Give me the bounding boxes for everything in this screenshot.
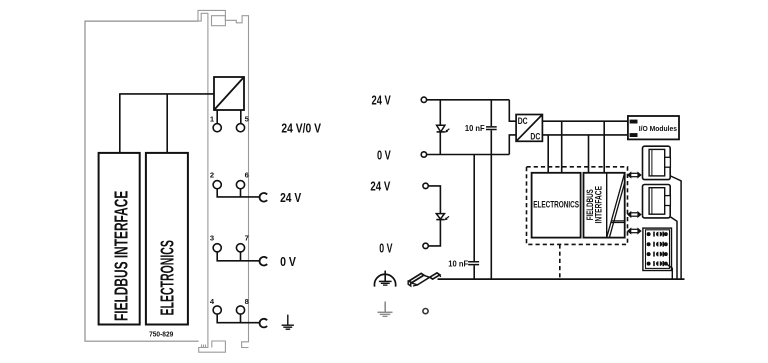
ground rail [438, 278, 685, 280]
clamp row4 [260, 319, 268, 328]
fieldbus interface box [99, 153, 140, 325]
24V rail [427, 99, 510, 101]
terminal 7 [236, 244, 244, 252]
svg-text:ELECTRONICS: ELECTRONICS [157, 240, 178, 315]
svg-text:24 V: 24 V [280, 190, 301, 205]
svg-text:6: 6 [245, 171, 249, 180]
wire bus top [120, 93, 214, 153]
RJ45 socket 2 [643, 185, 671, 218]
unconnected terminal circle [423, 309, 428, 314]
terminal 6 [236, 181, 244, 189]
wire row2 [217, 189, 260, 197]
svg-text:DC: DC [530, 132, 540, 142]
svg-text:FIELDBUS INTERFACE: FIELDBUS INTERFACE [111, 191, 132, 321]
terminal 3 [213, 244, 221, 252]
svg-text:750-829: 750-829 [149, 330, 173, 339]
power contact box with diagonal [214, 77, 244, 110]
svg-text:3: 3 [210, 234, 214, 243]
svg-text:0 V: 0 V [280, 254, 296, 269]
diode D1 [439, 100, 441, 155]
terminal 1 [216, 110, 218, 124]
svg-text:DC: DC [518, 116, 528, 126]
svg-text:0 V: 0 V [377, 148, 391, 163]
connector pins [647, 232, 668, 267]
I/O Modules box [628, 116, 679, 139]
0V rail [427, 154, 510, 156]
svg-text:7: 7 [245, 234, 249, 243]
RJ45 socket 1 [643, 146, 671, 179]
terminal 5 [240, 110, 242, 124]
terminal 2 [213, 181, 221, 189]
terminal circle 0V [421, 152, 426, 157]
service connector box [643, 228, 672, 270]
clamp row3 [260, 257, 268, 266]
grey earth symbol [378, 302, 393, 317]
diode D2 [436, 214, 444, 220]
svg-text:8: 8 [245, 297, 249, 306]
DC/DC outputs [542, 121, 629, 135]
field loop wire [428, 186, 440, 246]
dashed earth wire [559, 244, 561, 279]
module housing outline [198, 10, 249, 352]
DC/DC feed corners [509, 100, 516, 155]
arrow 3 [627, 227, 642, 234]
DC/DC converter [516, 115, 542, 142]
DIN rail icon [408, 273, 440, 286]
svg-text:10 nF: 10 nF [465, 123, 485, 133]
svg-text:0 V: 0 V [379, 240, 393, 255]
svg-text:2: 2 [210, 171, 214, 180]
electronics box [146, 153, 188, 325]
svg-text:ELECTRONICS: ELECTRONICS [533, 199, 579, 209]
wire row3 [217, 252, 260, 261]
drop wires [548, 121, 604, 173]
depth line A [671, 176, 682, 279]
electronics box right [532, 173, 581, 238]
terminal 8 [236, 306, 244, 314]
terminal circle 0V field [423, 243, 428, 248]
svg-text:I/O Modules: I/O Modules [639, 124, 677, 133]
earth arc symbol [374, 271, 395, 287]
terminal 4 [213, 306, 221, 314]
svg-text:INTERFACE: INTERFACE [594, 186, 604, 224]
terminal circle 24V [421, 97, 426, 102]
svg-text:24 V: 24 V [370, 179, 390, 194]
arrow 2 [627, 211, 642, 218]
svg-text:10 nF: 10 nF [448, 258, 468, 268]
dashed coupler box [527, 167, 628, 245]
svg-text:24 V/0 V: 24 V/0 V [281, 121, 321, 136]
svg-text:24 V: 24 V [372, 92, 392, 107]
pin earth wire [666, 264, 673, 280]
arrow 1 [627, 171, 642, 178]
wire row4 [217, 314, 260, 323]
earth symbol module [282, 315, 294, 330]
terminal circle 24V field [423, 183, 428, 188]
depth line B [671, 217, 677, 279]
outer box [85, 21, 199, 341]
clamp row2 [260, 193, 268, 202]
fieldbus interface box right [584, 173, 625, 238]
